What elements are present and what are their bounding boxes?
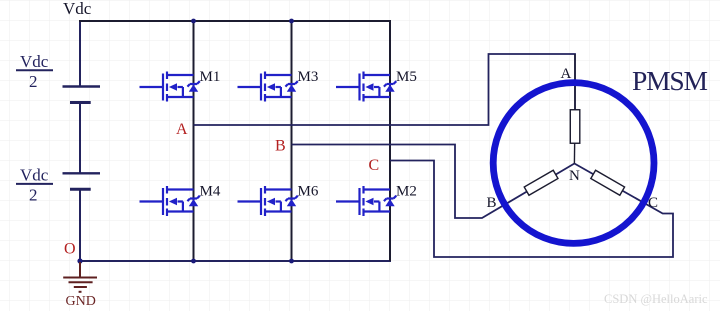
svg-text:M6: M6 [298, 184, 319, 200]
svg-text:Vdc: Vdc [20, 52, 49, 71]
svg-text:M4: M4 [200, 184, 221, 200]
svg-text:B: B [275, 138, 286, 155]
svg-text:N: N [569, 168, 580, 184]
svg-text:2: 2 [29, 72, 38, 91]
svg-text:Vdc: Vdc [20, 166, 49, 185]
svg-text:Vdc: Vdc [63, 0, 92, 18]
svg-text:A: A [561, 66, 572, 82]
svg-text:M3: M3 [298, 69, 319, 85]
svg-text:M1: M1 [200, 69, 221, 85]
svg-text:C: C [648, 195, 658, 211]
svg-text:PMSM: PMSM [632, 65, 707, 96]
svg-text:2: 2 [29, 186, 38, 205]
svg-text:M5: M5 [396, 69, 417, 85]
svg-text:CSDN @HelloAaric: CSDN @HelloAaric [604, 292, 708, 306]
svg-text:O: O [64, 241, 76, 258]
svg-text:GND: GND [66, 294, 96, 309]
svg-text:M2: M2 [396, 184, 417, 200]
svg-text:B: B [487, 195, 497, 211]
svg-text:A: A [176, 121, 188, 138]
svg-text:C: C [369, 157, 380, 174]
